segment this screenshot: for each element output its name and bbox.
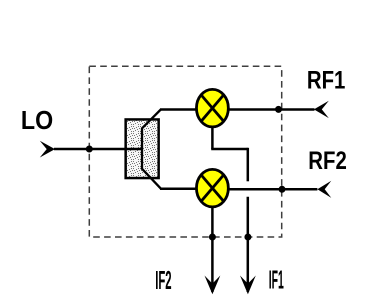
junction IF1 at enclosure edge [244,234,251,241]
svg-text:LO: LO [21,107,53,135]
port label IF2 [155,267,171,296]
svg-text:RF2: RF2 [308,146,346,175]
wire mixer M2 IF output [211,206,214,292]
port arrow IF2 [205,276,221,295]
port arrow RF2 [317,181,331,198]
mixer M2 [196,169,228,207]
junction RF2 at enclosure edge [279,186,286,193]
svg-text:RF1: RF1 [307,65,346,94]
wire splitter to mixer M1 [160,108,197,111]
svg-text:IF2: IF2 [155,267,171,296]
wire mixer M1 to RF1 port [228,108,314,111]
power splitter taper [142,110,161,189]
wire IF1 vertical lower segment [247,197,250,292]
module enclosure (dashed box) [89,66,281,237]
wire IF1 vertical upper segment [247,148,250,182]
port arrow IF1 [240,276,256,295]
port label RF2 [308,146,346,175]
wire splitter to mixer M2 [160,188,197,191]
svg-text:IF1: IF1 [269,266,284,295]
wire mixer M1 IF stub [211,126,214,149]
junction RF1 at enclosure edge [275,106,282,113]
port label LO [21,107,53,135]
port arrow LO [40,141,55,158]
port label RF1 [307,65,346,94]
port arrow RF1 [314,101,329,118]
mixer M1 [196,89,228,127]
wire LO input [54,148,142,151]
junction IF2 at enclosure edge [209,234,216,241]
port label IF1 [269,266,284,295]
wire IF1 horizontal jog [211,148,248,151]
junction LO at enclosure edge [86,146,93,153]
power splitter body [126,119,159,178]
wire mixer M2 to RF2 port [228,188,317,191]
